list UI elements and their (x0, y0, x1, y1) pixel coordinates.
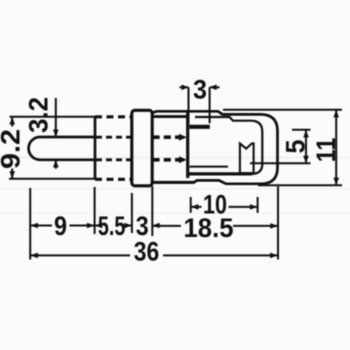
dim 9 arrow left (30, 223, 38, 229)
scan streak (0, 212, 350, 214)
dim 10 arrow right (250, 204, 258, 210)
extension flange right (151, 186, 153, 236)
svg-text:5: 5 (281, 140, 311, 154)
dim 11 arrow down (333, 178, 339, 186)
dim 3.2 line lower (55, 160, 57, 169)
svg-text:36: 36 (134, 237, 160, 267)
contact tab top (190, 125, 210, 129)
dim 9.2 line lower (11, 169, 13, 179)
cavity bottom edge (189, 172, 252, 175)
lug arrow upper (179, 134, 187, 141)
dim 3 top left arrow (182, 85, 189, 91)
dim 5.5/3 arrow at flange left (124, 223, 132, 229)
dim 3 top right arrow (209, 85, 216, 91)
dim 3 top right stub (210, 86, 220, 88)
dim 5 top tick (292, 129, 311, 131)
dim 3/18.5 arrow at flange right (152, 223, 160, 229)
dim 36 arrow right (270, 253, 278, 259)
svg-text:9.2: 9.2 (0, 129, 26, 169)
dim 18.5 line (152, 225, 277, 227)
dim 9 arrow right (87, 223, 95, 229)
dim 9.2 top extension (10, 116, 96, 118)
dim 3.2 arrow down (53, 130, 59, 138)
barrel bottom knurl (dashed) (95, 178, 132, 181)
dim 18.5 arrow right (270, 223, 278, 229)
shell bottom thick segment (152, 181, 194, 184)
pin (center contact) (29, 137, 95, 160)
dim 10 arrow left (191, 204, 199, 210)
solder lug flag (240, 143, 254, 173)
extension shell right (277, 187, 279, 260)
dim 3 top right extension (209, 87, 211, 123)
svg-text:3: 3 (193, 75, 207, 105)
shell inner step outline (195, 117, 262, 174)
svg-text:3.2: 3.2 (24, 97, 54, 133)
pin hidden line upper (dashed) (96, 136, 132, 139)
svg-text:5.5: 5.5 (98, 211, 126, 241)
dim 5 arrow up (303, 130, 309, 138)
extension flange left (131, 193, 133, 233)
dim 3.2 arrow up (53, 160, 59, 168)
dim 11 top tick (223, 109, 342, 111)
dim 5 arrow down (303, 156, 309, 164)
lug hidden line upper (dashed) (153, 135, 179, 139)
pin hidden line lower (dashed) (96, 158, 132, 161)
barrel left edge (94, 117, 97, 180)
dim 9.2 arrow up (9, 117, 15, 125)
lug hidden line lower (dashed) (153, 158, 179, 162)
dim 5 line (305, 130, 307, 164)
scan streak (0, 188, 350, 190)
dim 5 bottom tick (250, 162, 311, 164)
lug arrow lower (179, 156, 187, 163)
dim 3 top left stub (180, 86, 189, 88)
extension 10 right (257, 197, 259, 213)
dim 5.5 arrow left (95, 223, 103, 229)
dim 11 arrow up (333, 110, 339, 118)
barrel top knurl (dashed) (95, 115, 132, 118)
svg-text:11: 11 (311, 138, 341, 163)
dim 36 line (30, 254, 277, 256)
shell outer outline (152, 111, 277, 184)
dim 3 top left extension (188, 87, 190, 125)
dim 11 line (335, 110, 337, 185)
cavity left edge (186, 111, 189, 178)
dim 9 line (30, 225, 94, 227)
extension barrel left (94, 187, 96, 234)
extension 10 left (190, 197, 192, 213)
dim 9.2 bottom extension (9, 178, 95, 180)
dim 11 bottom tick (258, 184, 342, 186)
flange ring (132, 110, 152, 186)
dim 5.5 line (95, 225, 132, 227)
svg-text:18.5: 18.5 (184, 213, 234, 243)
dim 9.2 arrow down (9, 171, 15, 179)
dim 10 line (191, 206, 258, 208)
extension pin tip (29, 188, 31, 260)
contact tab bottom (190, 166, 229, 168)
dim 36 arrow left (30, 253, 38, 259)
dim 3.2 line upper (55, 98, 57, 137)
scan streak (0, 157, 350, 159)
dim 9.2 line upper (11, 117, 13, 127)
shell inner wall top (153, 115, 187, 118)
svg-text:9: 9 (54, 211, 67, 241)
